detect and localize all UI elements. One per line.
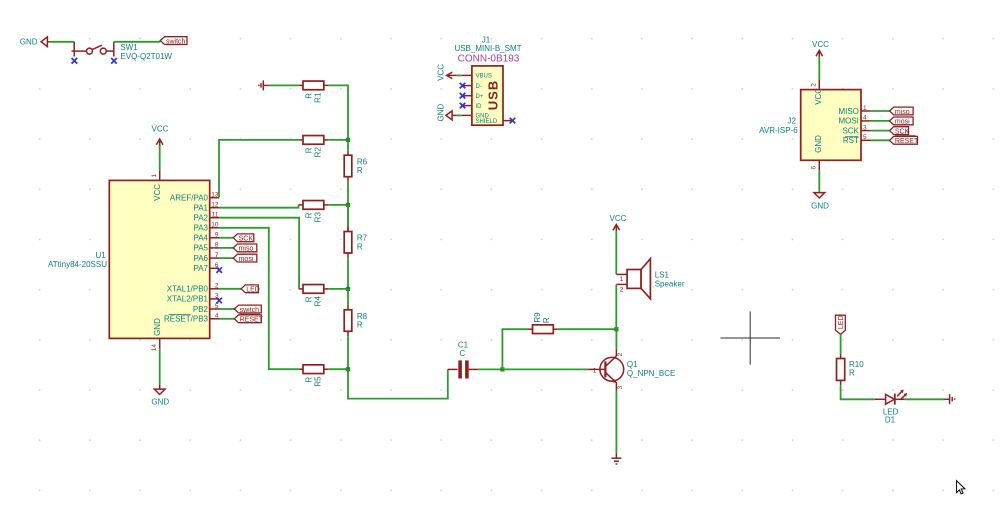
svg-text:1: 1 — [151, 174, 158, 178]
no-connect X on PB1 — [216, 298, 222, 304]
resistor R7 — [344, 205, 367, 258]
wire R5 to bus — [328, 368, 348, 370]
wire collector node to Q1 collector — [615, 329, 617, 349]
wire PA4 to SCK label — [219, 237, 233, 239]
svg-text:R: R — [542, 317, 551, 323]
svg-text:miso: miso — [239, 246, 254, 253]
svg-text:PA6: PA6 — [193, 254, 208, 263]
pin 4 MOSI of J2 — [838, 115, 870, 126]
power symbol GND (top-left) — [20, 37, 50, 47]
pin 9 PA4 — [193, 232, 219, 243]
global label miso (J2) — [890, 107, 914, 116]
wire Q1 emitter to GND — [615, 391, 617, 454]
wire PA5 to miso label — [219, 247, 233, 249]
svg-text:MOSI: MOSI — [838, 117, 858, 126]
svg-text:VCC: VCC — [812, 40, 829, 49]
wire PA2 down to R4 — [219, 218, 299, 289]
pin 6 GND of J2 — [811, 135, 824, 170]
svg-text:ATtiny84-20SSU: ATtiny84-20SSU — [48, 260, 107, 269]
wire RST to RESET label — [871, 139, 890, 141]
svg-text:PA3: PA3 — [193, 224, 208, 233]
no-connect X on SHIELD — [510, 118, 516, 124]
pin 1 VCC of U1 — [151, 170, 162, 200]
resistor R6 — [344, 150, 367, 181]
svg-text:2: 2 — [617, 353, 624, 357]
svg-text:5: 5 — [215, 303, 219, 310]
global label switch (top-left) — [160, 37, 187, 46]
pin VBUS of J1 — [462, 74, 492, 80]
svg-text:VCC: VCC — [436, 64, 445, 81]
global label switch (U1) — [234, 305, 261, 314]
wire PA0 up to R2 — [219, 140, 299, 198]
pin 3 SCK of J2 — [842, 124, 870, 135]
svg-text:GND: GND — [20, 38, 38, 47]
global label LED (above R10, vertical) — [836, 315, 846, 334]
global label mosi (U1) — [233, 254, 257, 263]
resistor R3 — [299, 201, 329, 223]
resistor R4 — [299, 285, 328, 307]
svg-text:SCK: SCK — [842, 126, 859, 135]
svg-text:12: 12 — [211, 202, 219, 209]
pin 2 XTAL1/PB0 — [167, 283, 219, 294]
LED D1 — [875, 390, 907, 425]
svg-text:2: 2 — [811, 83, 818, 87]
svg-text:R: R — [305, 296, 314, 302]
svg-text:GND: GND — [436, 104, 445, 122]
svg-text:miso: miso — [895, 109, 910, 116]
power symbol GND (left of J1, rotated) — [436, 104, 457, 122]
pin GND of J1 — [462, 113, 490, 119]
wire R3 to bus — [328, 204, 348, 206]
power symbol GND (below J2) — [811, 192, 829, 211]
svg-text:R: R — [357, 242, 363, 251]
power symbol GND (right of D1, rotated) — [945, 394, 955, 404]
svg-text:AVR-ISP-6: AVR-ISP-6 — [759, 126, 798, 135]
svg-text:PB2: PB2 — [193, 305, 209, 314]
global label miso (U1) — [233, 244, 257, 253]
svg-text:GND: GND — [153, 318, 162, 336]
resistor R10 — [837, 354, 865, 385]
pin 12 PA1 — [193, 202, 219, 213]
no-connect X on D+ — [460, 93, 466, 99]
svg-text:D1: D1 — [885, 416, 896, 425]
svg-text:R: R — [305, 377, 314, 383]
svg-text:6: 6 — [811, 166, 818, 170]
svg-text:C: C — [460, 349, 466, 358]
svg-text:VCC: VCC — [152, 125, 169, 134]
junction R3/R6/R7 node — [346, 203, 350, 207]
speaker LS1 — [616, 259, 685, 299]
resistor R9 — [528, 312, 558, 334]
svg-text:R: R — [849, 369, 855, 378]
svg-text:MISO: MISO — [838, 107, 858, 116]
wire bus bottom to C1 — [348, 369, 448, 398]
transistor Q1 Q_NPN_BCE — [588, 349, 675, 391]
global label SCK (J2) — [890, 127, 910, 136]
wire GND to SW1 — [50, 41, 74, 43]
svg-text:XTAL2/PB1: XTAL2/PB1 — [167, 295, 209, 304]
svg-text:PA7: PA7 — [193, 264, 208, 273]
pin 5 PB2 — [193, 303, 219, 314]
junction collector node — [614, 327, 618, 331]
connector J2 AVR-ISP-6 — [759, 90, 861, 161]
svg-text:R9: R9 — [533, 312, 542, 323]
wire base node to Q1 base — [502, 368, 588, 370]
wire PB3 to RESET label — [219, 318, 234, 320]
global label RESET (J2) — [890, 136, 919, 145]
wire U1 pin14 to GND — [159, 348, 161, 384]
svg-text:14: 14 — [151, 344, 158, 352]
pin 4 RESET/PB3 — [164, 313, 219, 324]
svg-text:J2: J2 — [787, 117, 796, 126]
power symbol VCC (above J2) — [812, 40, 829, 57]
junction R5/R8 node — [346, 367, 350, 371]
switch SW1 EVQ-Q2T01W — [72, 42, 173, 61]
svg-text:R: R — [305, 93, 314, 99]
svg-text:D-: D- — [476, 84, 482, 90]
svg-text:4: 4 — [215, 313, 219, 320]
global label SCK (U1) — [233, 234, 254, 243]
svg-text:R3: R3 — [314, 212, 323, 223]
no-connect X on ID — [460, 103, 466, 109]
svg-text:USB: USB — [486, 80, 501, 110]
pin D+ of J1 — [462, 94, 484, 100]
svg-text:LS1: LS1 — [655, 271, 670, 280]
svg-text:R: R — [305, 212, 314, 218]
svg-text:GND: GND — [814, 135, 823, 153]
svg-text:ID: ID — [476, 104, 483, 110]
global label LED (U1) — [241, 285, 260, 294]
svg-text:PA4: PA4 — [193, 234, 208, 243]
resistor R5 — [299, 365, 328, 387]
wire VCC to J2 pin 2 — [818, 57, 820, 80]
svg-text:EVQ-Q2T01W: EVQ-Q2T01W — [120, 52, 172, 61]
power symbol GND (left of R1, rotated) — [259, 80, 269, 90]
svg-text:SCK: SCK — [239, 236, 254, 243]
svg-text:VCC: VCC — [610, 214, 627, 223]
svg-text:1: 1 — [863, 105, 867, 112]
wire PA1 to R3 — [219, 205, 299, 208]
wire VCC to LS1 pin1 — [615, 231, 617, 275]
svg-text:2: 2 — [215, 283, 219, 290]
wire R9 to collector node — [558, 328, 617, 330]
svg-text:PA1: PA1 — [193, 204, 208, 213]
wire PA6 to mosi label — [219, 257, 233, 259]
svg-text:U1: U1 — [95, 251, 106, 260]
wire D1 to GND — [905, 398, 945, 400]
svg-text:RST: RST — [843, 136, 859, 145]
no-connect X on PA7 — [216, 267, 222, 273]
power symbol GND (below Q1) — [612, 454, 622, 465]
wire base node up to R9 — [502, 329, 527, 369]
no-connect X on D- — [460, 83, 466, 89]
resistor R2 — [299, 136, 328, 158]
svg-text:switch: switch — [240, 307, 260, 314]
wire GND to J1 GND pin — [457, 114, 462, 116]
pin ID of J1 — [462, 104, 482, 110]
pin 8 PA5 — [193, 242, 219, 253]
svg-text:USB_MINI-B_SMT: USB_MINI-B_SMT — [454, 44, 521, 53]
svg-text:LED: LED — [838, 315, 845, 329]
wire R8 to R5 node — [347, 336, 349, 369]
pin D- of J1 — [462, 84, 482, 90]
svg-text:RESET: RESET — [895, 138, 919, 145]
junction R4/R7/R8 node — [346, 287, 350, 291]
wire LED label to R10 — [840, 334, 842, 353]
svg-text:13: 13 — [211, 192, 219, 199]
wire MISO to miso label — [871, 110, 890, 112]
svg-text:4: 4 — [863, 115, 867, 122]
svg-text:3: 3 — [617, 386, 624, 390]
wire PB2 to switch label — [219, 308, 234, 310]
svg-text:3: 3 — [863, 124, 867, 131]
junction R2/R6 node — [346, 138, 350, 142]
svg-text:AREF/PA0: AREF/PA0 — [170, 194, 209, 203]
svg-text:mosi: mosi — [895, 119, 910, 126]
svg-text:R: R — [357, 166, 363, 175]
wire PB0 to LED label — [219, 288, 241, 290]
svg-text:RESET: RESET — [240, 317, 264, 324]
svg-text:RESET/PB3: RESET/PB3 — [164, 315, 209, 324]
wire MOSI to mosi label — [871, 120, 890, 122]
wire SCK to SCK label — [871, 130, 890, 132]
svg-text:1: 1 — [593, 367, 597, 374]
pin 7 PA6 — [193, 252, 219, 263]
pin 11 PA2 — [193, 212, 219, 223]
svg-text:mosi: mosi — [239, 256, 254, 263]
pin 14 GND of U1 — [151, 318, 162, 351]
pin 5 RST of J2 — [843, 134, 871, 145]
svg-text:10: 10 — [211, 222, 219, 229]
svg-text:GND: GND — [811, 202, 829, 211]
svg-text:CONN-0B193: CONN-0B193 — [458, 54, 520, 65]
svg-text:8: 8 — [215, 242, 219, 249]
pin 10 PA3 — [193, 222, 219, 233]
resistor R1 — [299, 81, 328, 103]
svg-text:PA2: PA2 — [193, 214, 208, 223]
connector J1 USB_MINI-B_SMT — [454, 36, 521, 126]
pin 1 MISO of J2 — [838, 105, 870, 116]
svg-text:SHIELD: SHIELD — [476, 119, 498, 125]
no-connect X on SW1 pin — [72, 58, 78, 64]
svg-text:XTAL1/PB0: XTAL1/PB0 — [167, 285, 209, 294]
wire R6 to R3 node — [347, 182, 349, 205]
resistor R8 — [344, 289, 367, 336]
wire SW1 to switch label — [114, 41, 160, 43]
IC U1 ATtiny84-20SSU — [48, 180, 210, 338]
wire R2 to bus — [328, 139, 348, 141]
global label RESET (U1) — [234, 314, 263, 323]
svg-text:Speaker: Speaker — [655, 280, 685, 289]
wire GND to R1 — [269, 84, 299, 86]
wire LS1 pin2 to collector node — [615, 284, 617, 329]
global label mosi (J2) — [890, 117, 914, 126]
svg-text:R: R — [357, 321, 363, 330]
svg-text:R: R — [305, 147, 314, 153]
svg-text:SCK: SCK — [895, 128, 910, 135]
pin 3 XTAL2/PB1 — [167, 293, 219, 304]
svg-text:9: 9 — [215, 232, 219, 239]
svg-text:R1: R1 — [314, 92, 323, 103]
svg-text:2: 2 — [620, 286, 624, 293]
svg-text:switch: switch — [166, 38, 186, 45]
svg-text:LED: LED — [246, 287, 260, 294]
svg-text:D+: D+ — [476, 94, 484, 100]
wire C1 to base node — [478, 368, 502, 370]
wire VCC to VBUS — [457, 74, 462, 76]
svg-text:PA5: PA5 — [193, 244, 208, 253]
svg-text:VCC: VCC — [153, 184, 162, 201]
power symbol VCC (above U1) — [152, 125, 169, 147]
capacitor C1 — [448, 340, 478, 378]
svg-text:R4: R4 — [314, 296, 323, 307]
power symbol GND (below U1) — [151, 384, 169, 406]
svg-text:VCC: VCC — [814, 88, 823, 105]
no-connect X on SW1 pin — [111, 58, 117, 64]
wire J2 pin6 to GND — [818, 170, 820, 192]
mouse cursor arrow — [957, 481, 965, 494]
svg-text:11: 11 — [212, 212, 219, 219]
wire R7 to R4 node — [347, 258, 349, 289]
svg-text:5: 5 — [863, 134, 867, 141]
crosshair cursor marker — [721, 311, 781, 364]
wire VCC to U1 pin 1 — [159, 145, 161, 170]
wire R1 to bus — [328, 85, 348, 150]
svg-text:Q_NPN_BCE: Q_NPN_BCE — [627, 369, 675, 378]
pin 13 AREF/PA0 — [170, 192, 219, 203]
svg-text:SW1: SW1 — [120, 43, 138, 52]
svg-text:VBUS: VBUS — [476, 74, 492, 80]
pin 6 PA7 — [193, 262, 219, 273]
wire PA3 down to R5 — [219, 228, 299, 369]
pin SHIELD of J1 — [476, 119, 514, 125]
wire R10 to D1 — [841, 385, 875, 399]
power symbol VCC (above LS1) — [610, 214, 627, 232]
svg-text:7: 7 — [215, 252, 219, 259]
svg-text:Q1: Q1 — [627, 360, 638, 369]
wire R4 to bus — [328, 288, 348, 290]
junction base node — [500, 367, 504, 371]
pin 2 VCC of J2 — [811, 80, 824, 105]
power symbol VCC (left of J1, rotated) — [436, 64, 457, 81]
svg-text:GND: GND — [151, 398, 169, 407]
svg-text:R5: R5 — [314, 376, 323, 387]
svg-text:1: 1 — [620, 276, 624, 283]
svg-text:R2: R2 — [314, 147, 323, 158]
